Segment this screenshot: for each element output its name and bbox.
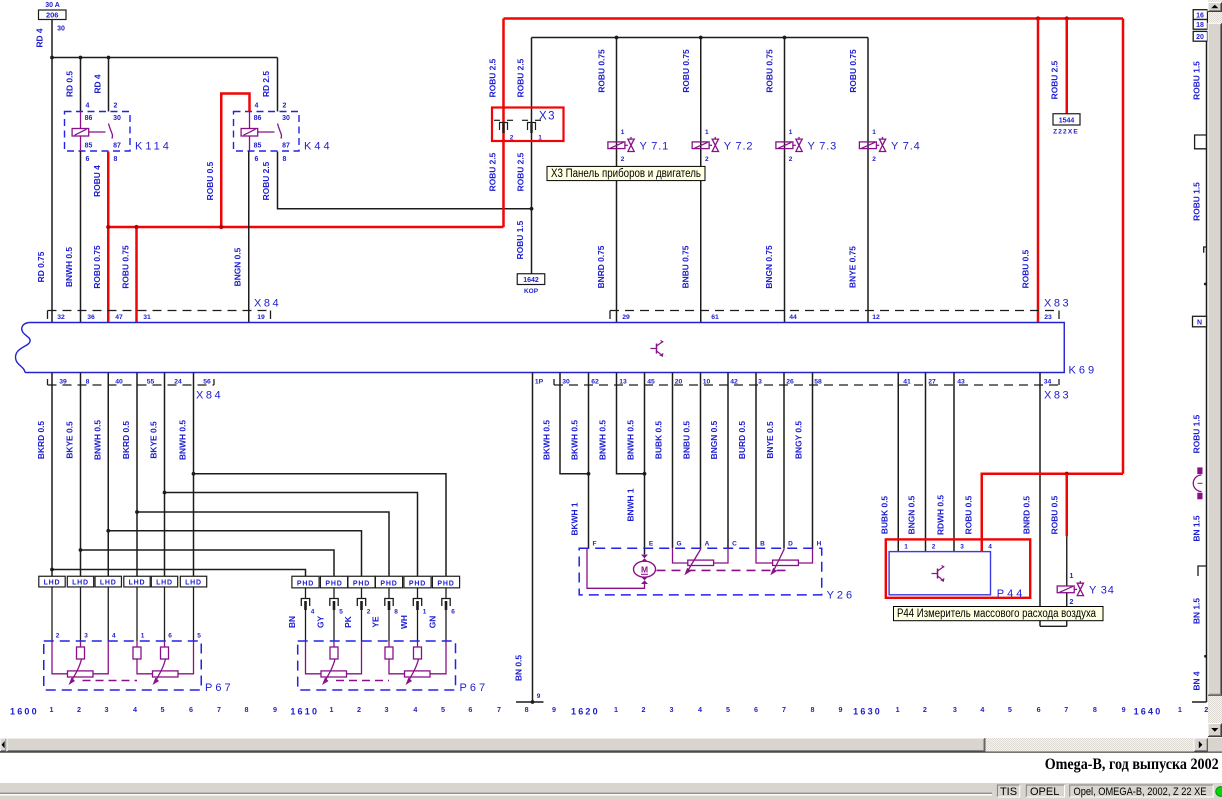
wire ROBU0.75 injector Y 7.1 — [616, 38, 618, 323]
sensor P44 blue box — [889, 552, 990, 595]
wire Y34 feed black — [1066, 536, 1068, 586]
svg-text:1620: 1620 — [571, 707, 600, 717]
solenoid valve Y 7.2 coil — [692, 142, 709, 149]
svg-text:30: 30 — [113, 115, 121, 122]
svg-text:BNWH 0.5: BNWH 0.5 — [626, 420, 636, 460]
solenoid valve Y 7.3 coil — [776, 142, 793, 149]
svg-text:1: 1 — [1070, 573, 1074, 580]
bus 30-supply horizontal — [52, 57, 278, 59]
svg-text:20: 20 — [1196, 34, 1204, 41]
svg-text:ROBU 0.75: ROBU 0.75 — [765, 49, 775, 93]
relay K44 coil — [241, 129, 258, 137]
svg-text:ROBU 0.5: ROBU 0.5 — [1050, 495, 1060, 534]
svg-text:45: 45 — [647, 378, 655, 385]
P67 group1 wiring — [306, 641, 322, 674]
wire branch to PHD 1 — [52, 570, 306, 577]
node branch 3 — [106, 529, 110, 533]
svg-text:X3: X3 — [539, 111, 556, 123]
svg-text:87: 87 — [113, 143, 121, 150]
svg-text:Y 7.2: Y 7.2 — [724, 140, 754, 152]
svg-text:5: 5 — [1008, 705, 1012, 714]
svg-text:31: 31 — [143, 314, 151, 321]
svg-text:1610: 1610 — [290, 707, 319, 717]
svg-text:BN 4: BN 4 — [1192, 671, 1202, 690]
svg-text:4: 4 — [255, 103, 259, 110]
svg-text:1: 1 — [141, 633, 145, 640]
svg-text:86: 86 — [254, 115, 262, 122]
svg-text:2: 2 — [283, 103, 287, 110]
svg-text:2: 2 — [789, 156, 793, 163]
wire BKYE 0.5 X84 pin to LHD 5 — [164, 373, 166, 577]
svg-text:1544: 1544 — [1059, 117, 1075, 124]
svg-text:BNGY 0.5: BNGY 0.5 — [794, 421, 804, 459]
svg-text:P67: P67 — [205, 682, 234, 694]
svg-text:3: 3 — [105, 705, 109, 714]
svg-text:18: 18 — [1196, 22, 1204, 29]
svg-text:RD 2.5: RD 2.5 — [261, 71, 271, 97]
svg-text:GN: GN — [428, 616, 438, 629]
svg-text:BNRD 0.5: BNRD 0.5 — [1022, 496, 1032, 535]
svg-text:8: 8 — [283, 156, 287, 163]
node bus-K114-30 — [107, 56, 111, 60]
svg-text:4: 4 — [698, 705, 702, 714]
svg-text:RD 0.75: RD 0.75 — [36, 251, 46, 282]
svg-text:4: 4 — [311, 609, 315, 616]
svg-text:ROBU 2.5: ROBU 2.5 — [488, 58, 498, 97]
node bnwh merge — [643, 472, 647, 476]
svg-text:39: 39 — [59, 378, 67, 385]
svg-text:BNWH 0.5: BNWH 0.5 — [598, 420, 608, 460]
svg-text:6: 6 — [754, 705, 758, 714]
svg-text:Opel, OMEGA-B, 2002, Z 22 XE: Opel, OMEGA-B, 2002, Z 22 XE — [1074, 786, 1207, 798]
svg-text:29: 29 — [622, 314, 630, 321]
ECU K69 transistor symbol — [651, 348, 657, 350]
svg-text:2: 2 — [510, 135, 514, 142]
wire BKRD 0.5 X84 pin to LHD 1 — [51, 373, 53, 577]
svg-text:KOP: KOP — [524, 288, 539, 295]
P67 group2 thermistor — [133, 647, 141, 659]
PHD terminal boxes — [292, 576, 319, 588]
svg-text:2: 2 — [923, 705, 927, 714]
right node — [1204, 283, 1207, 286]
relay K44 contact blade — [278, 124, 282, 139]
UI chrome: scrollbars and status bar — [1208, 0, 1222, 738]
P67 group2 thermistor — [385, 647, 393, 659]
wire BNGN0.5 K44 pin6 to X84 pin19 — [248, 151, 250, 323]
svg-text:LHD: LHD — [156, 580, 173, 587]
svg-text:6: 6 — [86, 156, 90, 163]
svg-text:N: N — [1197, 320, 1202, 327]
svg-text:PHD: PHD — [325, 580, 342, 587]
svg-text:1: 1 — [330, 705, 334, 714]
svg-text:G: G — [676, 541, 681, 548]
Y26 potentiometer 1 — [688, 560, 714, 565]
Y26 potentiometer 2 — [773, 560, 799, 565]
svg-text:34: 34 — [1044, 378, 1052, 385]
svg-text:2: 2 — [367, 609, 371, 616]
svg-text:3: 3 — [84, 633, 88, 640]
node robu-47 — [106, 225, 110, 229]
wire BN0.5 X83 pin1P to ground — [532, 373, 534, 703]
P67 group1 wiring — [52, 641, 68, 674]
svg-text:1P: 1P — [535, 378, 544, 385]
svg-text:LHD: LHD — [129, 580, 146, 587]
svg-text:ROBU 0.75: ROBU 0.75 — [681, 49, 691, 93]
P67 resistor R1 — [68, 671, 94, 677]
svg-text:30: 30 — [57, 26, 65, 33]
svg-text:BNRD 0.75: BNRD 0.75 — [596, 245, 606, 288]
wire BUBK0.5 pin41 to P44 — [897, 373, 899, 552]
svg-text:BUBK 0.5: BUBK 0.5 — [880, 496, 890, 535]
svg-text:1: 1 — [896, 705, 900, 714]
node red-y34 — [1065, 472, 1069, 476]
svg-text:K69: K69 — [1069, 365, 1098, 377]
svg-text:WH: WH — [399, 615, 409, 629]
svg-text:8: 8 — [1093, 705, 1097, 714]
wire RD2.5 to K44 pin2 — [277, 58, 279, 112]
wire BKYE 0.5 X84 pin to LHD 2 — [80, 373, 82, 577]
Y26 linkage dashed — [657, 569, 787, 571]
svg-text:20: 20 — [675, 378, 683, 385]
svg-text:8: 8 — [86, 378, 90, 385]
svg-text:D: D — [788, 541, 793, 548]
sensor block P67 dashed box — [44, 641, 202, 690]
svg-text:BUBK 0.5: BUBK 0.5 — [654, 421, 664, 460]
svg-text:1: 1 — [621, 129, 625, 136]
wire red right down to P44 area — [1122, 19, 1125, 474]
svg-text:40: 40 — [115, 378, 123, 385]
svg-text:2: 2 — [621, 156, 625, 163]
LHD terminal boxes — [39, 576, 65, 587]
svg-text:3: 3 — [670, 705, 674, 714]
node branch 5 — [163, 491, 167, 495]
svg-text:1642: 1642 — [523, 277, 539, 284]
Y26 motor return wire — [587, 548, 645, 588]
svg-text:56: 56 — [203, 378, 211, 385]
svg-text:ROBU 2.5: ROBU 2.5 — [516, 58, 526, 97]
svg-text:BN 0.5: BN 0.5 — [514, 655, 524, 681]
right stub connector c — [1198, 566, 1207, 576]
wire RDWH0.5 pin43 to P44 — [953, 373, 955, 552]
wire Y34 to ground — [1066, 593, 1068, 626]
svg-text:6: 6 — [468, 705, 472, 714]
svg-text:1: 1 — [872, 129, 876, 136]
P67 linkage dashed — [336, 680, 389, 682]
wire ROBU0.5 to X83 pin23 red — [1037, 19, 1040, 323]
wire BKWH0.5 pin30 — [560, 373, 589, 474]
node bkwh merge — [587, 472, 591, 476]
solenoid valve Y 34 coil — [1057, 586, 1074, 593]
svg-text:PHD: PHD — [297, 580, 314, 587]
red wire to P44 pin4 — [982, 474, 1123, 552]
svg-text:1: 1 — [789, 129, 793, 136]
connector X3 pin symbol — [522, 119, 528, 121]
svg-text:87: 87 — [282, 143, 290, 150]
svg-text:BN: BN — [287, 616, 297, 628]
svg-text:27: 27 — [928, 378, 936, 385]
wire BNWH0.5 pin45 to Y26 E — [644, 373, 646, 555]
svg-text:8: 8 — [811, 705, 815, 714]
svg-text:12: 12 — [872, 314, 880, 321]
svg-text:ROBU 2.5: ROBU 2.5 — [261, 161, 271, 200]
wire ROBU4 K114 pin8 red — [107, 152, 110, 323]
P67 wiper 1 arrow — [325, 659, 336, 682]
wire BNWH 0.5 X84 pin to LHD 6 — [193, 373, 195, 577]
right inline connector purple — [1197, 467, 1202, 474]
svg-text:24: 24 — [174, 378, 182, 385]
svg-text:Y 7.4: Y 7.4 — [891, 140, 921, 152]
P67 resistor R2 — [405, 671, 431, 677]
svg-text:26: 26 — [786, 378, 794, 385]
svg-text:6: 6 — [451, 609, 455, 616]
right margin trunk wire — [1206, 41, 1208, 702]
node bus-K114coil — [79, 56, 83, 60]
svg-text:ROBU 1.5: ROBU 1.5 — [1192, 61, 1202, 100]
svg-text:PHD: PHD — [353, 580, 370, 587]
svg-text:41: 41 — [903, 378, 911, 385]
connector X3 red box — [492, 108, 564, 142]
throttle Y26 dashed box — [579, 548, 822, 595]
svg-text:BNWH 1: BNWH 1 — [626, 488, 636, 521]
svg-text:Y 7.1: Y 7.1 — [640, 140, 670, 152]
svg-text:C: C — [732, 541, 737, 548]
svg-text:55: 55 — [147, 378, 155, 385]
svg-text:1: 1 — [614, 705, 618, 714]
node inj2 — [699, 36, 703, 40]
svg-text:K114: K114 — [135, 141, 172, 153]
svg-text:Y 7.3: Y 7.3 — [808, 140, 838, 152]
svg-text:1640: 1640 — [1134, 707, 1163, 717]
svg-text:BKRD 0.5: BKRD 0.5 — [121, 421, 131, 460]
ECU K69 band outline — [25, 323, 1064, 373]
wire branch to PHD 2 — [81, 550, 335, 576]
svg-text:2: 2 — [114, 103, 118, 110]
svg-text:BKYE 0.5: BKYE 0.5 — [149, 421, 159, 459]
svg-text:LHD: LHD — [72, 580, 89, 587]
svg-text:P67: P67 — [460, 682, 489, 694]
sheet-ref boxes 16 18 20 — [1193, 10, 1207, 20]
relay K44 dashed box — [234, 112, 300, 152]
svg-text:X84: X84 — [196, 390, 223, 402]
wire ROBU0.75 injector Y 7.4 — [867, 38, 869, 323]
P44 transistor symbol — [932, 573, 938, 575]
connector X84 upper dashed row — [48, 310, 271, 312]
svg-text:Z22XE: Z22XE — [1053, 129, 1079, 136]
svg-text:BNGN 0.5: BNGN 0.5 — [709, 420, 719, 459]
svg-text:GY: GY — [316, 616, 326, 629]
svg-text:YE: YE — [371, 616, 381, 628]
svg-text:P44: P44 — [997, 588, 1026, 600]
svg-text:1: 1 — [904, 544, 908, 551]
svg-text:1: 1 — [423, 609, 427, 616]
wire ROBU2.5 to fuse 1544 red — [1066, 19, 1069, 114]
P67 wiper 2 thermistor — [164, 641, 166, 647]
P67 linkage dashed — [83, 680, 138, 682]
Y26 motor M — [644, 554, 646, 558]
wire BUBK 0.5 to Y26 — [672, 373, 674, 549]
svg-text:7: 7 — [782, 705, 786, 714]
svg-text:ROBU 0.5: ROBU 0.5 — [964, 495, 974, 534]
node branch 6 — [192, 472, 196, 476]
connector X84 lower dashed row — [48, 384, 215, 386]
svg-text:ROBU 0.75: ROBU 0.75 — [121, 245, 131, 289]
svg-text:44: 44 — [789, 314, 797, 321]
svg-text:LHD: LHD — [44, 580, 61, 587]
svg-text:BNWH 0.5: BNWH 0.5 — [178, 420, 188, 460]
svg-text:6: 6 — [1037, 705, 1041, 714]
svg-text:10: 10 — [703, 378, 711, 385]
svg-text:7: 7 — [217, 705, 221, 714]
svg-text:P44 Измеритель массового расхо: P44 Измеритель массового расхода воздуха — [897, 608, 1097, 620]
ECU K69 left brace — [16, 323, 31, 373]
wire BNWH 0.5 X84 pin to LHD 3 — [107, 373, 109, 577]
svg-text:BKRD 0.5: BKRD 0.5 — [36, 421, 46, 460]
wire branch to PHD 4 — [137, 512, 389, 576]
red bus ROBU horizontal — [108, 226, 503, 229]
svg-text:85: 85 — [85, 143, 93, 150]
wire branch to PHD 5 — [165, 493, 418, 577]
svg-text:H: H — [817, 541, 822, 548]
svg-text:32: 32 — [57, 314, 65, 321]
red wire to Y34 — [1066, 474, 1069, 537]
wire ROBU0.5 loop to K44 pin86 red — [221, 94, 249, 228]
svg-text:RDWH 0.5: RDWH 0.5 — [936, 495, 946, 535]
solenoid valve Y 7.4 valve body — [879, 139, 885, 151]
P67 wiper 2 arrow — [408, 659, 419, 682]
svg-text:5: 5 — [726, 705, 730, 714]
svg-text:8: 8 — [525, 705, 529, 714]
svg-text:X3 Панель приборов и двигатель: X3 Панель приборов и двигатель — [551, 168, 701, 180]
right node b — [1204, 655, 1207, 658]
wire BNWH0.5 K114 pin6 to X84 pin36 — [80, 151, 82, 323]
relay K114 contact blade — [109, 124, 113, 139]
relay K114 dashed box — [65, 112, 131, 152]
svg-text:X83: X83 — [1044, 390, 1071, 402]
svg-text:A: A — [705, 541, 710, 548]
svg-text:X83: X83 — [1044, 298, 1071, 310]
solenoid valve Y 7.2 valve body — [712, 139, 718, 151]
svg-text:6: 6 — [168, 633, 172, 640]
tooltip P44 — [894, 607, 1104, 621]
node bus-left — [50, 56, 54, 60]
svg-text:ROBU 1.5: ROBU 1.5 — [515, 220, 525, 259]
svg-text:5: 5 — [441, 705, 445, 714]
svg-text:RD 4: RD 4 — [93, 74, 103, 93]
svg-text:BKWH 0.5: BKWH 0.5 — [570, 420, 580, 460]
svg-text:ROBU 0.75: ROBU 0.75 — [597, 49, 607, 93]
svg-text:E: E — [649, 541, 654, 548]
svg-text:BNBU 0.5: BNBU 0.5 — [682, 421, 692, 460]
svg-text:9: 9 — [839, 705, 843, 714]
svg-text:BN 1.5: BN 1.5 — [1192, 598, 1202, 624]
svg-text:BN 1.5: BN 1.5 — [1192, 515, 1202, 541]
svg-text:2: 2 — [77, 705, 81, 714]
svg-text:BNYE 0.75: BNYE 0.75 — [848, 246, 858, 288]
svg-text:BNWH 0.5: BNWH 0.5 — [64, 247, 74, 287]
svg-text:86: 86 — [85, 115, 93, 122]
svg-text:BKYE 0.5: BKYE 0.5 — [65, 421, 75, 459]
solenoid valve Y 7.1 valve body — [628, 139, 634, 151]
fuse box 1544 — [1053, 114, 1080, 125]
wire RD4 to K114 pin2 — [108, 58, 110, 112]
connector X83 upper dashed row — [610, 310, 1059, 312]
svg-text:62: 62 — [591, 378, 599, 385]
ground point 9 — [516, 701, 544, 703]
svg-text:2: 2 — [642, 705, 646, 714]
svg-text:BNGN 0.5: BNGN 0.5 — [907, 495, 917, 534]
svg-text:23: 23 — [1044, 314, 1052, 321]
svg-text:58: 58 — [814, 378, 822, 385]
P67 group2 wiring — [388, 641, 390, 647]
LHD wires to P67 — [51, 587, 53, 641]
node branch 4 — [135, 510, 139, 514]
svg-text:PHD: PHD — [380, 580, 397, 587]
wire BNGN 0.5 to Y26 — [727, 373, 729, 549]
black bus injectors — [532, 37, 869, 39]
wire RD0.75 to X84 pin32 — [51, 58, 53, 323]
svg-text:K44: K44 — [304, 141, 333, 153]
svg-text:RD 4: RD 4 — [35, 28, 45, 47]
right stub connector a — [1195, 135, 1207, 149]
wire branch to PHD 6 — [194, 474, 447, 577]
svg-text:30: 30 — [282, 115, 290, 122]
svg-text:BKWH 0.5: BKWH 0.5 — [542, 420, 552, 460]
node red-1544 — [1065, 16, 1069, 20]
sensor block P67 dashed box — [298, 641, 456, 690]
wire BNYE 0.5 to Y26 — [783, 373, 785, 549]
svg-text:3: 3 — [758, 378, 762, 385]
solenoid valve Y 7.4 coil — [859, 142, 876, 149]
svg-text:2: 2 — [1204, 705, 1208, 714]
svg-text:43: 43 — [957, 378, 965, 385]
svg-text:9: 9 — [1122, 705, 1126, 714]
svg-text:36: 36 — [87, 314, 95, 321]
tooltip X3 — [547, 166, 705, 180]
svg-text:5: 5 — [161, 705, 165, 714]
svg-text:5: 5 — [197, 633, 201, 640]
connector X3 pin symbol — [494, 119, 500, 121]
wire ROBU0.75 to X84 pin31 red — [135, 227, 138, 323]
wire BNWH0.5 pin13 — [617, 373, 645, 474]
svg-text:4: 4 — [133, 705, 137, 714]
P67 wiper 2 arrow — [155, 659, 166, 682]
node branch 2 — [79, 548, 83, 552]
svg-text:4: 4 — [112, 633, 116, 640]
svg-text:Y 34: Y 34 — [1089, 584, 1115, 596]
relay K114 coil lead — [89, 131, 106, 133]
svg-text:OPEL: OPEL — [1030, 786, 1059, 798]
svg-text:2: 2 — [932, 544, 936, 551]
P67 wiper 1 thermistor — [333, 641, 335, 647]
svg-text:2: 2 — [1070, 599, 1074, 606]
wire BKRD 0.5 X84 pin to LHD 4 — [136, 373, 138, 577]
connector X83 lower dashed row — [554, 384, 1059, 386]
svg-text:ROBU 1.5: ROBU 1.5 — [1192, 182, 1202, 221]
svg-text:8: 8 — [114, 156, 118, 163]
node inj3 — [783, 36, 787, 40]
svg-text:2: 2 — [357, 705, 361, 714]
svg-text:42: 42 — [730, 378, 738, 385]
svg-text:ROBU 2.5: ROBU 2.5 — [1050, 60, 1060, 99]
svg-text:BNGN 0.75: BNGN 0.75 — [764, 245, 774, 289]
svg-text:61: 61 — [711, 314, 719, 321]
svg-text:ROBU 1.5: ROBU 1.5 — [1192, 414, 1202, 453]
node branch 1 — [50, 568, 54, 572]
net box N — [1193, 316, 1207, 327]
svg-text:1600: 1600 — [10, 707, 39, 717]
svg-text:ROBU 2.5: ROBU 2.5 — [516, 152, 526, 191]
P67 resistor R1 — [321, 671, 347, 677]
